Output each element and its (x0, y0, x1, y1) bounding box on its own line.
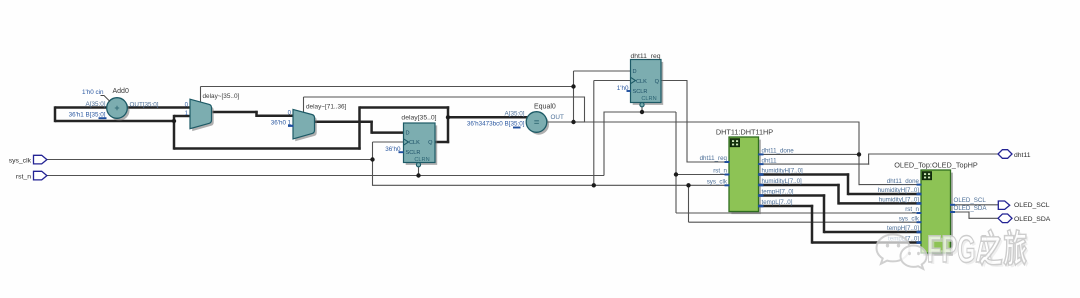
svg-text:sys_clk: sys_clk (707, 179, 728, 186)
svg-text:dht11_done: dht11_done (762, 148, 795, 155)
svg-text:Equal0: Equal0 (534, 104, 556, 111)
svg-text:humidityH[7..0]: humidityH[7..0] (762, 168, 804, 175)
svg-text:D: D (406, 130, 410, 136)
svg-text:dht11_req: dht11_req (700, 155, 728, 162)
svg-text:tempH[7..0]: tempH[7..0] (887, 225, 919, 232)
svg-text:delay[35..0]: delay[35..0] (401, 114, 436, 121)
svg-text:CLRN: CLRN (414, 157, 429, 163)
svg-text:A[35:0]: A[35:0] (86, 101, 106, 108)
svg-text:tempL[7..0]: tempL[7..0] (762, 199, 793, 206)
svg-text:humidityL[7..0]: humidityL[7..0] (762, 178, 803, 185)
svg-text:OUT: OUT (551, 114, 564, 121)
svg-text:36'h0: 36'h0 (271, 119, 287, 126)
svg-text:humidityL[7..0]: humidityL[7..0] (879, 197, 920, 204)
svg-text:rst_n: rst_n (16, 173, 31, 180)
svg-text:CLK: CLK (636, 79, 647, 85)
svg-text:36'h3473bc0 B[35:0]: 36'h3473bc0 B[35:0] (467, 121, 525, 128)
svg-text:OLED_Top:OLED_TopHP: OLED_Top:OLED_TopHP (894, 161, 978, 170)
svg-text:Q: Q (428, 140, 433, 146)
svg-text:SCLR: SCLR (406, 150, 421, 156)
svg-text:1'h0 cin: 1'h0 cin (82, 89, 104, 96)
svg-text:dht11: dht11 (762, 157, 778, 164)
svg-text:dht11: dht11 (1014, 152, 1031, 159)
svg-text:Q: Q (655, 79, 660, 85)
svg-text:OUT[35:0]: OUT[35:0] (130, 101, 159, 108)
svg-text:rst_n: rst_n (713, 168, 727, 175)
svg-text:tempH[7..0]: tempH[7..0] (762, 189, 794, 196)
svg-text:dht11_done: dht11_done (887, 178, 920, 185)
svg-text:SCLR: SCLR (633, 89, 648, 95)
svg-text:A[35:0]: A[35:0] (505, 110, 525, 117)
svg-text:dht11_req: dht11_req (630, 53, 660, 60)
svg-text:D: D (633, 69, 637, 75)
svg-text:1'h0: 1'h0 (617, 85, 629, 92)
svg-text:DHT11:DHT11HP: DHT11:DHT11HP (716, 128, 773, 137)
svg-text:OLED_SCL: OLED_SCL (1014, 202, 1050, 209)
svg-text:sys_clk: sys_clk (899, 215, 920, 222)
svg-text:sys_clk: sys_clk (9, 157, 32, 164)
svg-text:CLK: CLK (409, 140, 420, 146)
svg-text:delay~[71..36]: delay~[71..36] (306, 103, 347, 110)
svg-text:rst_n: rst_n (905, 206, 919, 213)
svg-text:Add0: Add0 (113, 88, 129, 95)
svg-text:CLRN: CLRN (641, 96, 656, 102)
svg-text:OLED_SCL: OLED_SCL (954, 197, 987, 204)
svg-text:humidityH[7..0]: humidityH[7..0] (878, 187, 920, 194)
svg-text:36'h1 B[35:0]: 36'h1 B[35:0] (69, 111, 106, 118)
svg-text:OLED_SDA: OLED_SDA (954, 205, 988, 212)
svg-text:OLED_SDA: OLED_SDA (1014, 216, 1051, 223)
svg-text:delay~[35..0]: delay~[35..0] (203, 93, 240, 100)
svg-text:36'h0: 36'h0 (385, 146, 401, 153)
